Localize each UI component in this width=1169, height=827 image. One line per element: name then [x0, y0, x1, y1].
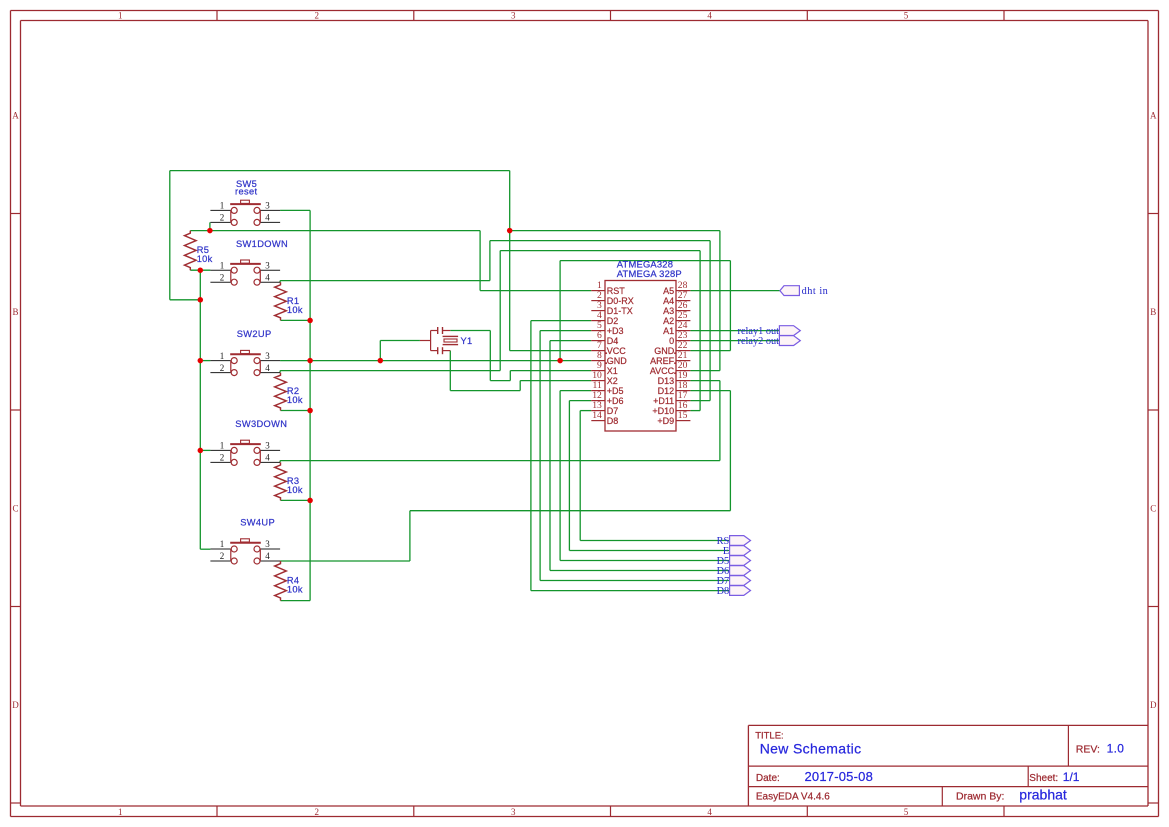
svg-text:4: 4: [265, 453, 270, 463]
svg-text:2: 2: [220, 272, 225, 282]
svg-text:Drawn By:: Drawn By:: [956, 791, 1004, 803]
svg-text:dht in: dht in: [802, 286, 829, 297]
svg-text:D2: D2: [607, 316, 619, 326]
svg-text:A: A: [12, 111, 19, 121]
svg-text:B: B: [12, 307, 18, 317]
svg-text:2: 2: [220, 213, 225, 223]
svg-text:10k: 10k: [287, 485, 303, 495]
svg-text:1: 1: [220, 441, 225, 451]
svg-text:C: C: [12, 504, 18, 514]
svg-text:D1-TX: D1-TX: [607, 306, 633, 316]
svg-text:+D5: +D5: [607, 386, 624, 396]
svg-text:EasyEDA V4.4.6: EasyEDA V4.4.6: [756, 792, 830, 803]
svg-text:D8: D8: [717, 586, 730, 597]
svg-text:New Schematic: New Schematic: [760, 740, 862, 756]
svg-text:3: 3: [511, 11, 516, 21]
svg-text:1.0: 1.0: [1107, 742, 1125, 756]
svg-text:3: 3: [511, 807, 516, 817]
svg-text:A1: A1: [663, 326, 674, 336]
svg-text:C: C: [1150, 504, 1156, 514]
svg-text:10k: 10k: [197, 254, 213, 264]
svg-text:D4: D4: [607, 336, 619, 346]
svg-text:D: D: [1150, 700, 1157, 710]
svg-text:1: 1: [220, 201, 225, 211]
svg-text:D13: D13: [658, 376, 675, 386]
svg-text:3: 3: [265, 351, 270, 361]
svg-text:1/1: 1/1: [1063, 770, 1080, 784]
svg-text:+D3: +D3: [607, 326, 624, 336]
svg-text:ATMEGA 328P: ATMEGA 328P: [617, 268, 682, 279]
svg-text:AREF: AREF: [650, 356, 675, 366]
svg-text:reset: reset: [235, 187, 257, 197]
svg-text:D: D: [12, 700, 19, 710]
svg-text:3: 3: [265, 260, 270, 270]
svg-text:REV:: REV:: [1076, 743, 1100, 755]
svg-text:0: 0: [669, 336, 674, 346]
svg-text:+D10: +D10: [652, 406, 674, 416]
svg-text:+D9: +D9: [657, 416, 674, 426]
svg-text:+D6: +D6: [607, 396, 624, 406]
svg-text:relay2 out: relay2 out: [738, 336, 780, 347]
svg-text:10k: 10k: [287, 305, 303, 315]
svg-text:2: 2: [220, 363, 225, 373]
svg-text:15: 15: [678, 410, 688, 421]
svg-text:2017-05-08: 2017-05-08: [805, 769, 874, 784]
svg-text:A3: A3: [663, 306, 674, 316]
svg-text:SW1DOWN: SW1DOWN: [236, 239, 288, 249]
svg-text:1: 1: [220, 260, 225, 270]
svg-text:4: 4: [265, 363, 270, 373]
svg-text:4: 4: [265, 213, 270, 223]
svg-text:A2: A2: [663, 316, 674, 326]
svg-text:VCC: VCC: [607, 346, 627, 356]
svg-text:10k: 10k: [287, 395, 303, 405]
svg-text:1: 1: [118, 11, 123, 21]
svg-text:Date:: Date:: [756, 773, 780, 784]
svg-text:RST: RST: [607, 286, 626, 296]
svg-text:2: 2: [220, 453, 225, 463]
svg-text:A4: A4: [663, 296, 674, 306]
svg-text:D0-RX: D0-RX: [607, 296, 634, 306]
svg-text:1: 1: [220, 351, 225, 361]
svg-text:3: 3: [265, 539, 270, 549]
svg-text:D8: D8: [607, 416, 619, 426]
svg-text:3: 3: [265, 441, 270, 451]
svg-text:SW3DOWN: SW3DOWN: [235, 419, 287, 429]
svg-text:B: B: [1150, 307, 1156, 317]
svg-text:4: 4: [707, 807, 712, 817]
svg-text:SW2UP: SW2UP: [237, 329, 272, 339]
svg-text:4: 4: [265, 272, 270, 282]
svg-text:D7: D7: [607, 406, 619, 416]
svg-text:X2: X2: [607, 376, 618, 386]
svg-text:2: 2: [315, 807, 320, 817]
svg-text:X1: X1: [607, 366, 618, 376]
svg-text:D12: D12: [658, 386, 675, 396]
svg-text:1: 1: [220, 539, 225, 549]
svg-text:5: 5: [904, 807, 909, 817]
svg-text:5: 5: [904, 11, 909, 21]
svg-text:2: 2: [220, 551, 225, 561]
svg-text:3: 3: [265, 201, 270, 211]
svg-text:GND: GND: [654, 346, 675, 356]
svg-text:10k: 10k: [287, 584, 303, 594]
svg-text:4: 4: [265, 551, 270, 561]
svg-text:Sheet:: Sheet:: [1029, 773, 1058, 784]
svg-text:A: A: [1150, 111, 1157, 121]
svg-text:AVCC: AVCC: [650, 366, 675, 376]
svg-text:14: 14: [592, 410, 602, 421]
svg-text:2: 2: [315, 11, 320, 21]
svg-text:+D11: +D11: [653, 396, 674, 406]
svg-text:prabhat: prabhat: [1019, 786, 1067, 802]
svg-text:GND: GND: [607, 356, 628, 366]
svg-text:4: 4: [707, 11, 712, 21]
svg-text:A5: A5: [663, 286, 674, 296]
svg-text:1: 1: [118, 807, 123, 817]
svg-text:Y1: Y1: [461, 336, 473, 346]
svg-text:SW4UP: SW4UP: [240, 518, 275, 528]
